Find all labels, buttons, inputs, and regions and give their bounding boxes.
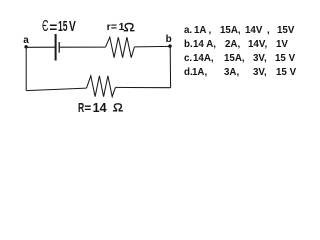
- wire node a to battery: [26, 46, 55, 48]
- answer option b: [184, 39, 193, 50]
- label node b: [166, 35, 172, 45]
- label resistor R letter: [78, 102, 84, 115]
- wire bottom right: [115, 86, 170, 88]
- wire right side b down: [169, 46, 171, 87]
- label value 14 for R: [93, 102, 107, 115]
- label ohm symbol for R: [0, 0, 313, 131]
- label value 1 for r: [119, 22, 125, 33]
- wire left side down from a: [25, 47, 27, 90]
- label EMF unit V: [69, 20, 76, 35]
- answer option a: [184, 25, 192, 36]
- node b: [168, 44, 171, 47]
- label EMF equals sign: [49, 21, 57, 35]
- resistor r zigzag: [106, 37, 135, 57]
- label equals sign for r: [111, 22, 117, 33]
- node a: [24, 45, 27, 48]
- label EMF value 15: [58, 20, 68, 35]
- wire resistor r to node b: [134, 45, 170, 48]
- battery E long plate: [55, 34, 57, 61]
- label ohm symbol for r: [0, 0, 313, 131]
- answer option c: [184, 53, 192, 64]
- wire bottom left: [26, 88, 86, 91]
- label equals sign for R: [84, 102, 91, 114]
- label internal resistance r: [107, 22, 111, 33]
- battery E short plate: [58, 42, 60, 53]
- label EMF script-E symbol: [42, 19, 49, 35]
- label node a: [23, 36, 29, 46]
- answer option d: [184, 67, 193, 78]
- wire battery to resistor r: [60, 46, 106, 48]
- resistor R zigzag: [87, 76, 116, 97]
